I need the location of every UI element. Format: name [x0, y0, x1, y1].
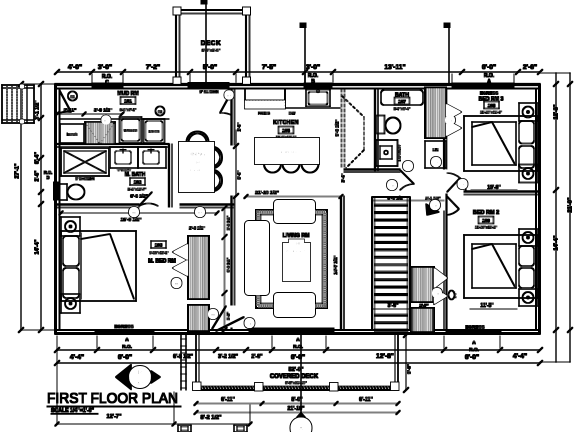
svg-text:8'-7"x5'-4": 8'-7"x5'-4" — [394, 107, 411, 111]
closet tag 13 — [445, 115, 455, 125]
svg-text:8'-2 1/2": 8'-2 1/2" — [200, 415, 221, 421]
svg-text:3'-2": 3'-2" — [227, 312, 231, 320]
egress window mbed — [95, 330, 154, 335]
bed2 labels — [473, 210, 499, 230]
svg-text:16: 16 — [248, 322, 252, 326]
deck — [174, 8, 251, 85]
svg-text:DINING: DINING — [187, 152, 205, 158]
svg-text:6'-11": 6'-11" — [221, 397, 235, 403]
svg-text:6'-0": 6'-0" — [237, 170, 242, 179]
svg-text:106: 106 — [293, 241, 301, 246]
covered deck — [181, 335, 399, 391]
svg-text:27'-1": 27'-1" — [15, 163, 21, 178]
section marker B — [116, 365, 160, 389]
closet tag 08 — [208, 309, 218, 319]
dim 10-0 — [471, 185, 517, 191]
slider label — [200, 89, 234, 100]
svg-text:13'-4"x9'-2": 13'-4"x9'-2" — [188, 169, 206, 173]
bed2 door — [447, 196, 460, 215]
svg-text:8'-6"x12'-7": 8'-6"x12'-7" — [128, 188, 147, 192]
wall tag 05 — [129, 207, 139, 217]
mbed entry door leaves — [212, 306, 255, 331]
egress window bed2 — [446, 330, 501, 335]
section line A top-right — [444, 23, 450, 84]
door tag 14 — [458, 179, 468, 189]
svg-text:03: 03 — [158, 110, 162, 114]
svg-text:M. BED RM: M. BED RM — [148, 259, 176, 265]
svg-text:SCALE 1/4"=1'-0": SCALE 1/4"=1'-0" — [51, 408, 94, 414]
svg-text:3'-9": 3'-9" — [388, 303, 399, 309]
svg-text:2'-1 1/2": 2'-1 1/2" — [425, 196, 440, 201]
mbed door — [139, 192, 158, 206]
window C mudroom — [92, 83, 123, 88]
svg-text:21'-10 1/2": 21'-10 1/2" — [255, 190, 279, 196]
entry door — [60, 91, 72, 114]
svg-text:2'-7": 2'-7" — [420, 304, 428, 308]
slider living room — [249, 328, 334, 333]
door tag 07 — [101, 115, 110, 124]
small oval 17 — [449, 291, 458, 300]
svg-text:05: 05 — [132, 211, 136, 215]
interior walls — [57, 88, 540, 330]
master bed — [61, 217, 136, 313]
svg-text:109: 109 — [482, 218, 490, 223]
svg-text:04: 04 — [227, 94, 231, 98]
svg-text:15'-10"x14'-2": 15'-10"x14'-2" — [285, 250, 308, 254]
svg-text:12'-8": 12'-8" — [376, 353, 394, 360]
svg-text:2'-3 1/2": 2'-3 1/2" — [189, 226, 205, 231]
svg-text:M. BATH: M. BATH — [125, 172, 146, 178]
hall door tag 10 — [387, 180, 397, 190]
door tag 19 — [430, 200, 440, 210]
wall tag 04b — [195, 207, 205, 217]
svg-text:12: 12 — [434, 161, 438, 165]
svg-text:07: 07 — [104, 119, 108, 123]
svg-text:7'-2": 7'-2" — [146, 64, 160, 71]
svg-text:04: 04 — [198, 211, 202, 215]
svg-text:A: A — [298, 427, 303, 433]
slider 9ft deck — [188, 83, 229, 88]
svg-text:8'-0"x8'-0": 8'-0"x8'-0" — [202, 49, 221, 53]
bath 107 — [377, 90, 424, 166]
tag 03 — [155, 106, 164, 115]
svg-text:3'-9 1/2": 3'-9 1/2" — [94, 108, 112, 114]
svg-text:103: 103 — [155, 243, 163, 248]
svg-text:FRIDG: FRIDG — [258, 112, 270, 116]
svg-text:12'-8": 12'-8" — [554, 104, 560, 119]
svg-text:6'-11": 6'-11" — [359, 397, 373, 403]
dining table — [179, 122, 242, 198]
svg-text:B: B — [138, 371, 143, 377]
svg-text:7'-5": 7'-5" — [262, 64, 276, 71]
svg-text:2'-9": 2'-9" — [251, 354, 263, 360]
svg-text:6'-0": 6'-0" — [465, 354, 479, 361]
svg-text:2'-6": 2'-6" — [523, 64, 537, 71]
svg-text:09: 09 — [175, 282, 179, 286]
svg-text:08: 08 — [211, 313, 215, 317]
svg-text:11'-10"x11'-4": 11'-10"x11'-4" — [480, 111, 502, 115]
svg-text:6'-0"x7'-1": 6'-0"x7'-1" — [120, 108, 137, 112]
bed3 labels — [479, 91, 504, 115]
svg-text:3'-4": 3'-4" — [341, 173, 346, 182]
svg-text:11: 11 — [406, 165, 410, 169]
top dimension line — [54, 64, 542, 86]
section line A top-mid — [300, 23, 306, 84]
svg-text:D: D — [46, 175, 49, 180]
svg-text:9'-0": 9'-0" — [407, 364, 412, 374]
svg-text:9'-10"x13'-1": 9'-10"x13'-1" — [149, 251, 169, 255]
svg-text:3'-2 1/2": 3'-2 1/2" — [218, 354, 238, 360]
svg-text:EGRESS: EGRESS — [465, 325, 484, 330]
window B kitchen — [304, 83, 332, 88]
svg-text:1'-9": 1'-9" — [237, 122, 242, 131]
svg-text:13: 13 — [448, 119, 452, 123]
svg-text:4'-4": 4'-4" — [70, 354, 84, 361]
section line B top — [201, 0, 207, 84]
svg-text:3'-0": 3'-0" — [306, 64, 320, 71]
svg-text:6'-0": 6'-0" — [291, 354, 305, 361]
svg-text:4'-0": 4'-0" — [68, 64, 82, 71]
lin tag 12 — [431, 157, 441, 167]
bed 2 — [464, 229, 537, 306]
svg-text:9'-0 1/2": 9'-0 1/2" — [335, 120, 340, 137]
svg-text:5'-0": 5'-0" — [203, 64, 217, 71]
svg-text:MUD RM: MUD RM — [117, 91, 138, 97]
mudroom fixtures — [55, 91, 165, 144]
left dimension lines — [15, 81, 58, 332]
stair dims — [372, 196, 444, 310]
svg-text:EGRESS: EGRESS — [114, 324, 133, 329]
svg-text:FIRST FLOOR PLAN: FIRST FLOOR PLAN — [47, 390, 178, 407]
door tag 06 — [68, 91, 77, 100]
svg-text:16'-9 1/2": 16'-9 1/2" — [120, 217, 141, 223]
svg-text:A: A — [296, 337, 300, 343]
window A bedroom3 — [452, 83, 514, 88]
svg-text:6'-8 1/2": 6'-8 1/2" — [173, 354, 193, 360]
svg-text:BED RM 2: BED RM 2 — [473, 210, 499, 216]
svg-text:LIVING RM: LIVING RM — [283, 233, 310, 239]
svg-text:6'-0": 6'-0" — [482, 64, 496, 71]
dim 11-5 — [470, 303, 517, 309]
svg-text:T-OP ISLAND: T-OP ISLAND — [276, 151, 299, 155]
svg-text:4'-4": 4'-4" — [513, 353, 527, 360]
svg-text:3'-1 1/2": 3'-1 1/2" — [35, 100, 41, 120]
living room furniture — [245, 200, 327, 317]
svg-text:107: 107 — [398, 99, 406, 104]
kitchen — [245, 89, 364, 173]
svg-text:06: 06 — [71, 95, 75, 99]
section marker A — [291, 335, 312, 437]
svg-text:14'-7 1/2": 14'-7 1/2" — [333, 255, 338, 274]
svg-text:EGRESS: EGRESS — [480, 91, 498, 96]
svg-text:13'-11": 13'-11" — [384, 64, 405, 71]
svg-text:A3: A3 — [136, 382, 143, 388]
svg-text:19: 19 — [433, 204, 437, 208]
svg-text:21'-10": 21'-10" — [288, 406, 306, 412]
svg-text:11'-5": 11'-5" — [480, 303, 494, 309]
entry stoop steps — [2, 85, 34, 124]
master closet — [173, 236, 209, 331]
master bed labels — [148, 241, 176, 265]
svg-text:DRYER: DRYER — [149, 130, 160, 134]
svg-text:LIN: LIN — [433, 148, 439, 152]
svg-text:6'-8"x21'-10": 6'-8"x21'-10" — [285, 381, 307, 385]
svg-text:A: A — [125, 337, 129, 343]
svg-text:6'-0": 6'-0" — [118, 354, 132, 361]
window D left wall — [54, 182, 60, 200]
svg-text:105: 105 — [282, 128, 290, 133]
closet tag 18 — [432, 288, 442, 298]
bath door — [400, 170, 414, 190]
deck dims — [194, 332, 412, 414]
svg-text:KITCHEN: KITCHEN — [273, 120, 299, 126]
svg-text:COVERED DECK: COVERED DECK — [270, 374, 319, 380]
svg-text:101: 101 — [124, 99, 132, 104]
svg-text:14'-4": 14'-4" — [554, 235, 560, 250]
linen closet — [425, 141, 446, 168]
svg-text:9' SLIDER: 9' SLIDER — [200, 89, 219, 94]
svg-text:10: 10 — [390, 184, 394, 188]
svg-text:bench: bench — [67, 133, 78, 137]
svg-text:6'-6 1/2": 6'-6 1/2" — [130, 194, 148, 199]
svg-text:6'-4": 6'-4" — [35, 152, 41, 164]
svg-text:14'-4": 14'-4" — [35, 239, 41, 254]
right dimension lines — [540, 73, 574, 362]
svg-text:52'-0": 52'-0" — [289, 367, 304, 373]
svg-text:R.O.: R.O. — [122, 344, 132, 350]
bed 3 — [464, 103, 537, 183]
outer walls — [55, 84, 540, 334]
egress bed2 — [465, 325, 484, 330]
svg-text:12'-7": 12'-7" — [107, 414, 122, 420]
bottom-left dims — [55, 336, 252, 432]
svg-text:11'-10"x12'-3": 11'-10"x12'-3" — [475, 226, 497, 230]
svg-text:A: A — [472, 340, 476, 346]
bed3 door — [447, 173, 466, 192]
svg-text:WASHER: WASHER — [124, 129, 138, 133]
bed2 closet — [411, 267, 447, 332]
svg-text:1'-0": 1'-0" — [453, 291, 457, 298]
dim 14-7 vertical — [333, 255, 338, 274]
svg-text:LAV VANITY: LAV VANITY — [398, 145, 402, 161]
closet tag 09 — [172, 278, 182, 288]
bottom dimension rows — [54, 336, 542, 373]
svg-text:R.O.: R.O. — [293, 344, 303, 350]
hall door tag 11 — [403, 161, 413, 171]
svg-text:102: 102 — [134, 180, 142, 185]
stairs — [372, 197, 410, 331]
master bath fixtures — [60, 147, 167, 200]
mudroom hall door — [220, 92, 232, 115]
svg-text:108: 108 — [488, 103, 496, 108]
svg-text:3'-0": 3'-0" — [98, 64, 112, 71]
title — [47, 390, 181, 414]
svg-text:3'-5 1/2": 3'-5 1/2" — [227, 216, 231, 231]
svg-text:104: 104 — [193, 160, 201, 165]
svg-text:DECK: DECK — [201, 40, 221, 47]
master bed dims — [59, 205, 231, 332]
bed3 closet — [425, 88, 461, 139]
svg-text:DW: DW — [289, 112, 296, 116]
svg-text:21'-0": 21'-0" — [568, 197, 574, 212]
svg-text:14: 14 — [461, 183, 465, 187]
dim 3-4 vertical — [341, 173, 346, 182]
svg-text:R.O.: R.O. — [469, 347, 479, 353]
svg-text:5' SHOWER: 5' SHOWER — [76, 177, 95, 181]
svg-text:2'-6": 2'-6" — [35, 170, 41, 181]
svg-text:6'-9 1/2": 6'-9 1/2" — [227, 258, 231, 273]
svg-text:18: 18 — [435, 292, 439, 296]
dim 21-10 — [244, 190, 343, 199]
svg-text:5'-5 1/2": 5'-5 1/2" — [387, 196, 405, 201]
